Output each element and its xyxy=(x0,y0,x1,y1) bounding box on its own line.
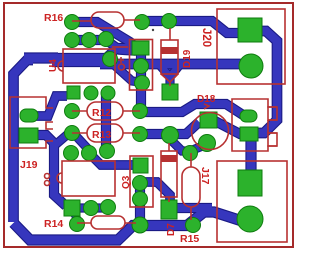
diode D7 xyxy=(161,143,177,236)
pad B xyxy=(135,15,150,30)
pad X R14 left xyxy=(70,217,85,232)
wire: D19 cathode V legs xyxy=(157,62,182,88)
pad K xyxy=(84,86,98,100)
resistor R16 xyxy=(44,12,140,28)
connector K1 mid right xyxy=(232,99,277,151)
op-amp U4 xyxy=(48,49,115,83)
pad R15 bottom xyxy=(186,218,201,233)
pad Y R14 right xyxy=(132,217,148,233)
pad N R12 right xyxy=(133,104,148,119)
pad D xyxy=(82,33,97,48)
wire: top net B to J20 square xyxy=(142,21,246,33)
pad E xyxy=(99,32,114,47)
pad S U5 top xyxy=(82,146,97,161)
pad connector square xyxy=(240,127,258,141)
svg-text:J19: J19 xyxy=(20,159,38,171)
wire: vertical through R12 R13 stadiums xyxy=(102,92,110,151)
svg-text:D19: D19 xyxy=(182,49,193,68)
wire: J19 square pad down to R14 left pad xyxy=(30,135,66,206)
wire: net M1 R12 right pad to ellipse pad xyxy=(140,104,243,115)
wire: J20 square to right vertical bus xyxy=(250,31,277,133)
svg-text:R15: R15 xyxy=(180,233,199,245)
pad L xyxy=(101,86,115,100)
svg-text:U4: U4 xyxy=(48,59,59,72)
pad D18 bottom xyxy=(199,135,216,152)
pad connector ellipse xyxy=(240,110,257,122)
wire: mid horizontal to J20 round pad xyxy=(100,60,242,69)
resistor R13 xyxy=(72,124,140,142)
svg-text:R13: R13 xyxy=(92,129,111,141)
svg-text:R14: R14 xyxy=(44,218,63,230)
pad A xyxy=(65,15,80,30)
pad D7 square xyxy=(161,200,177,219)
wire: net M2 R13 right pad through D7 top to D18 square xyxy=(140,121,250,134)
resistor R15 xyxy=(180,153,200,245)
capacitor C1 xyxy=(112,40,153,91)
pad Q3 square xyxy=(133,158,148,173)
wire: D7 square to J17 trace xyxy=(172,204,212,212)
pad C xyxy=(65,33,80,48)
svg-text:D7: D7 xyxy=(166,223,177,236)
pad P R13 left xyxy=(65,126,80,141)
wire: Q3 vertical to R14 right pad xyxy=(136,183,144,225)
pad J17 pin2 round xyxy=(237,206,263,232)
diode D18 xyxy=(192,94,229,150)
wire: pad S to Q3 square xyxy=(89,153,136,165)
pad Q3 mid xyxy=(133,176,148,191)
wire: mid horizontal thick band to U4 xyxy=(24,54,58,63)
wire: bottom bus to J17 round pad xyxy=(14,212,243,240)
svg-text:J17: J17 xyxy=(199,167,211,185)
svg-text:J20: J20 xyxy=(200,28,212,47)
wire: branch from band up to square pad F xyxy=(103,48,133,61)
svg-text:R12: R12 xyxy=(92,107,111,119)
pad I xyxy=(135,76,150,91)
wire: link D7 top R15 top D18 bottom xyxy=(171,140,205,151)
connector J20 xyxy=(200,9,285,84)
pad J17 pin1 square xyxy=(238,170,262,196)
pad D7 top xyxy=(162,127,179,144)
diode D19 xyxy=(161,28,193,86)
pad D18 square xyxy=(200,112,217,128)
pad M R12 left xyxy=(65,104,80,119)
wire: R16 pad A to square pad F xyxy=(72,22,133,45)
op-amp U5 xyxy=(57,161,115,196)
pad V xyxy=(84,201,99,216)
wire: left vertical bus xyxy=(14,60,34,222)
wire: branch to R13 left pad xyxy=(54,134,68,146)
wire: J17 square vertical to connector pad xyxy=(247,138,256,172)
pad Q3 bottom xyxy=(133,192,148,207)
wire: pad E diagonal to square F xyxy=(106,40,136,51)
wire: U4 right side diagonal to pad I xyxy=(113,64,140,82)
wire: stub pad U to R14 left pad xyxy=(73,212,78,220)
pad R15 top xyxy=(183,146,198,161)
svg-text:D18: D18 xyxy=(197,94,216,105)
connector J19 xyxy=(10,97,53,171)
transistor Q3 xyxy=(121,156,153,207)
wire: J19 ellipse pad to R12 left pad xyxy=(30,96,67,116)
pad J19 pin1 xyxy=(20,109,38,122)
svg-text:R16: R16 xyxy=(44,12,63,24)
wire: U5 bottom row pads xyxy=(72,205,108,212)
pad U square U5 pin1 xyxy=(64,200,80,216)
pad R U5 top xyxy=(64,146,79,161)
wire outlines xyxy=(14,21,278,240)
pad D19 anode square xyxy=(162,84,178,100)
resistor R14 xyxy=(44,216,136,230)
pad T U5 top xyxy=(100,144,115,159)
pad G xyxy=(103,52,118,67)
wire: Q3 pad to D7 square xyxy=(140,182,170,200)
pad J square U4 pin1 xyxy=(67,86,80,99)
connector J17 xyxy=(199,161,287,242)
pad F square xyxy=(132,41,149,55)
pad H xyxy=(134,59,149,74)
pin1 marks J19 xyxy=(45,174,50,186)
resistor R12 xyxy=(72,102,140,120)
wire: pad P to pad S diagonal xyxy=(76,136,89,150)
pad D19 top xyxy=(162,14,177,29)
wire: row2 pads C-D-E xyxy=(72,36,106,44)
pad J20 pin2 round xyxy=(239,54,263,78)
pad W xyxy=(101,200,116,215)
pad Q R13 right xyxy=(133,127,148,142)
wire: vertical through pads H I to R12 right pad xyxy=(137,50,145,111)
pad J20 pin1 square xyxy=(238,18,262,42)
svg-text:Q3: Q3 xyxy=(121,175,132,189)
pad J19 pin2 xyxy=(19,128,38,143)
